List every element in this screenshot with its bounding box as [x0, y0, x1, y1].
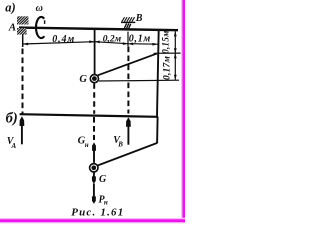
magenta page-edge right [181, 0, 183, 224]
tick at rope attach level [154, 52, 181, 54]
drum C [36, 17, 44, 38]
svg-text:а): а) [5, 1, 15, 15]
svg-text:0,15м: 0,15м [160, 30, 170, 53]
force G (down arrow) [93, 173, 95, 178]
hanger strut at pulley [94, 29, 96, 75]
pulley level extension line [99, 79, 179, 82]
magenta page-edge bottom [0, 218, 185, 220]
svg-text:0,1м: 0,1м [129, 34, 151, 45]
right bracket vertical [157, 30, 159, 117]
force P_n (down arrow) [93, 184, 95, 198]
force G_n rope tension (up arrow) [93, 149, 95, 163]
right dimension line vertical [174, 31, 176, 80]
svg-text:0,4м: 0,4м [52, 34, 75, 45]
svg-text:B: B [117, 141, 123, 149]
beam (part b) [20, 114, 158, 117]
rope from pulley to bracket [98, 53, 157, 75]
svg-text:ω: ω [36, 3, 43, 14]
dim arrows [23, 43, 28, 46]
dashed projection line above G_n arrow [93, 117, 95, 140]
pulley G (part a) [90, 75, 98, 83]
drum rope tick [44, 20, 46, 24]
svg-text:G: G [79, 74, 87, 85]
force V_B [127, 125, 129, 145]
force V_A [21, 124, 23, 144]
support A hatched block lower [17, 28, 27, 35]
svg-text:B: B [135, 13, 143, 24]
dashed line below pulley [93, 83, 95, 114]
dashed line below B [127, 47, 129, 114]
svg-text:0,17м: 0,17м [163, 56, 173, 80]
support B hatching [122, 17, 135, 22]
extension below A [22, 34, 24, 47]
bracket vertical (part b) [156, 117, 159, 144]
svg-text:A: A [8, 21, 16, 33]
dashed line below A [22, 49, 24, 114]
support B post [124, 23, 131, 29]
pulley (part b) [90, 164, 98, 172]
horizontal dimension line [23, 42, 158, 45]
support A hatched block upper [17, 16, 29, 24]
svg-text:н: н [104, 199, 108, 207]
beam AB (part a) [19, 28, 178, 31]
svg-text:0,2м: 0,2м [103, 34, 122, 44]
svg-text:G: G [99, 174, 107, 185]
support B ceiling line [121, 21, 135, 23]
extension below B [127, 32, 129, 47]
svg-text:Рис. 1.61: Рис. 1.61 [71, 207, 124, 219]
svg-text:A: A [11, 142, 17, 150]
svg-text:н: н [85, 141, 89, 149]
bracket diagonal to pulley [98, 143, 158, 166]
svg-text:б): б) [6, 110, 18, 126]
